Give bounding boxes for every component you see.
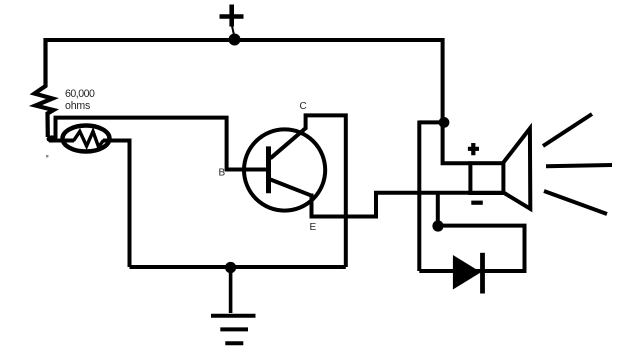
svg-text:ohms: ohms (65, 100, 90, 112)
svg-text:B: B (219, 168, 226, 179)
svg-text:C: C (300, 101, 307, 112)
svg-text:E: E (310, 222, 317, 233)
svg-text:60,000: 60,000 (65, 88, 95, 100)
